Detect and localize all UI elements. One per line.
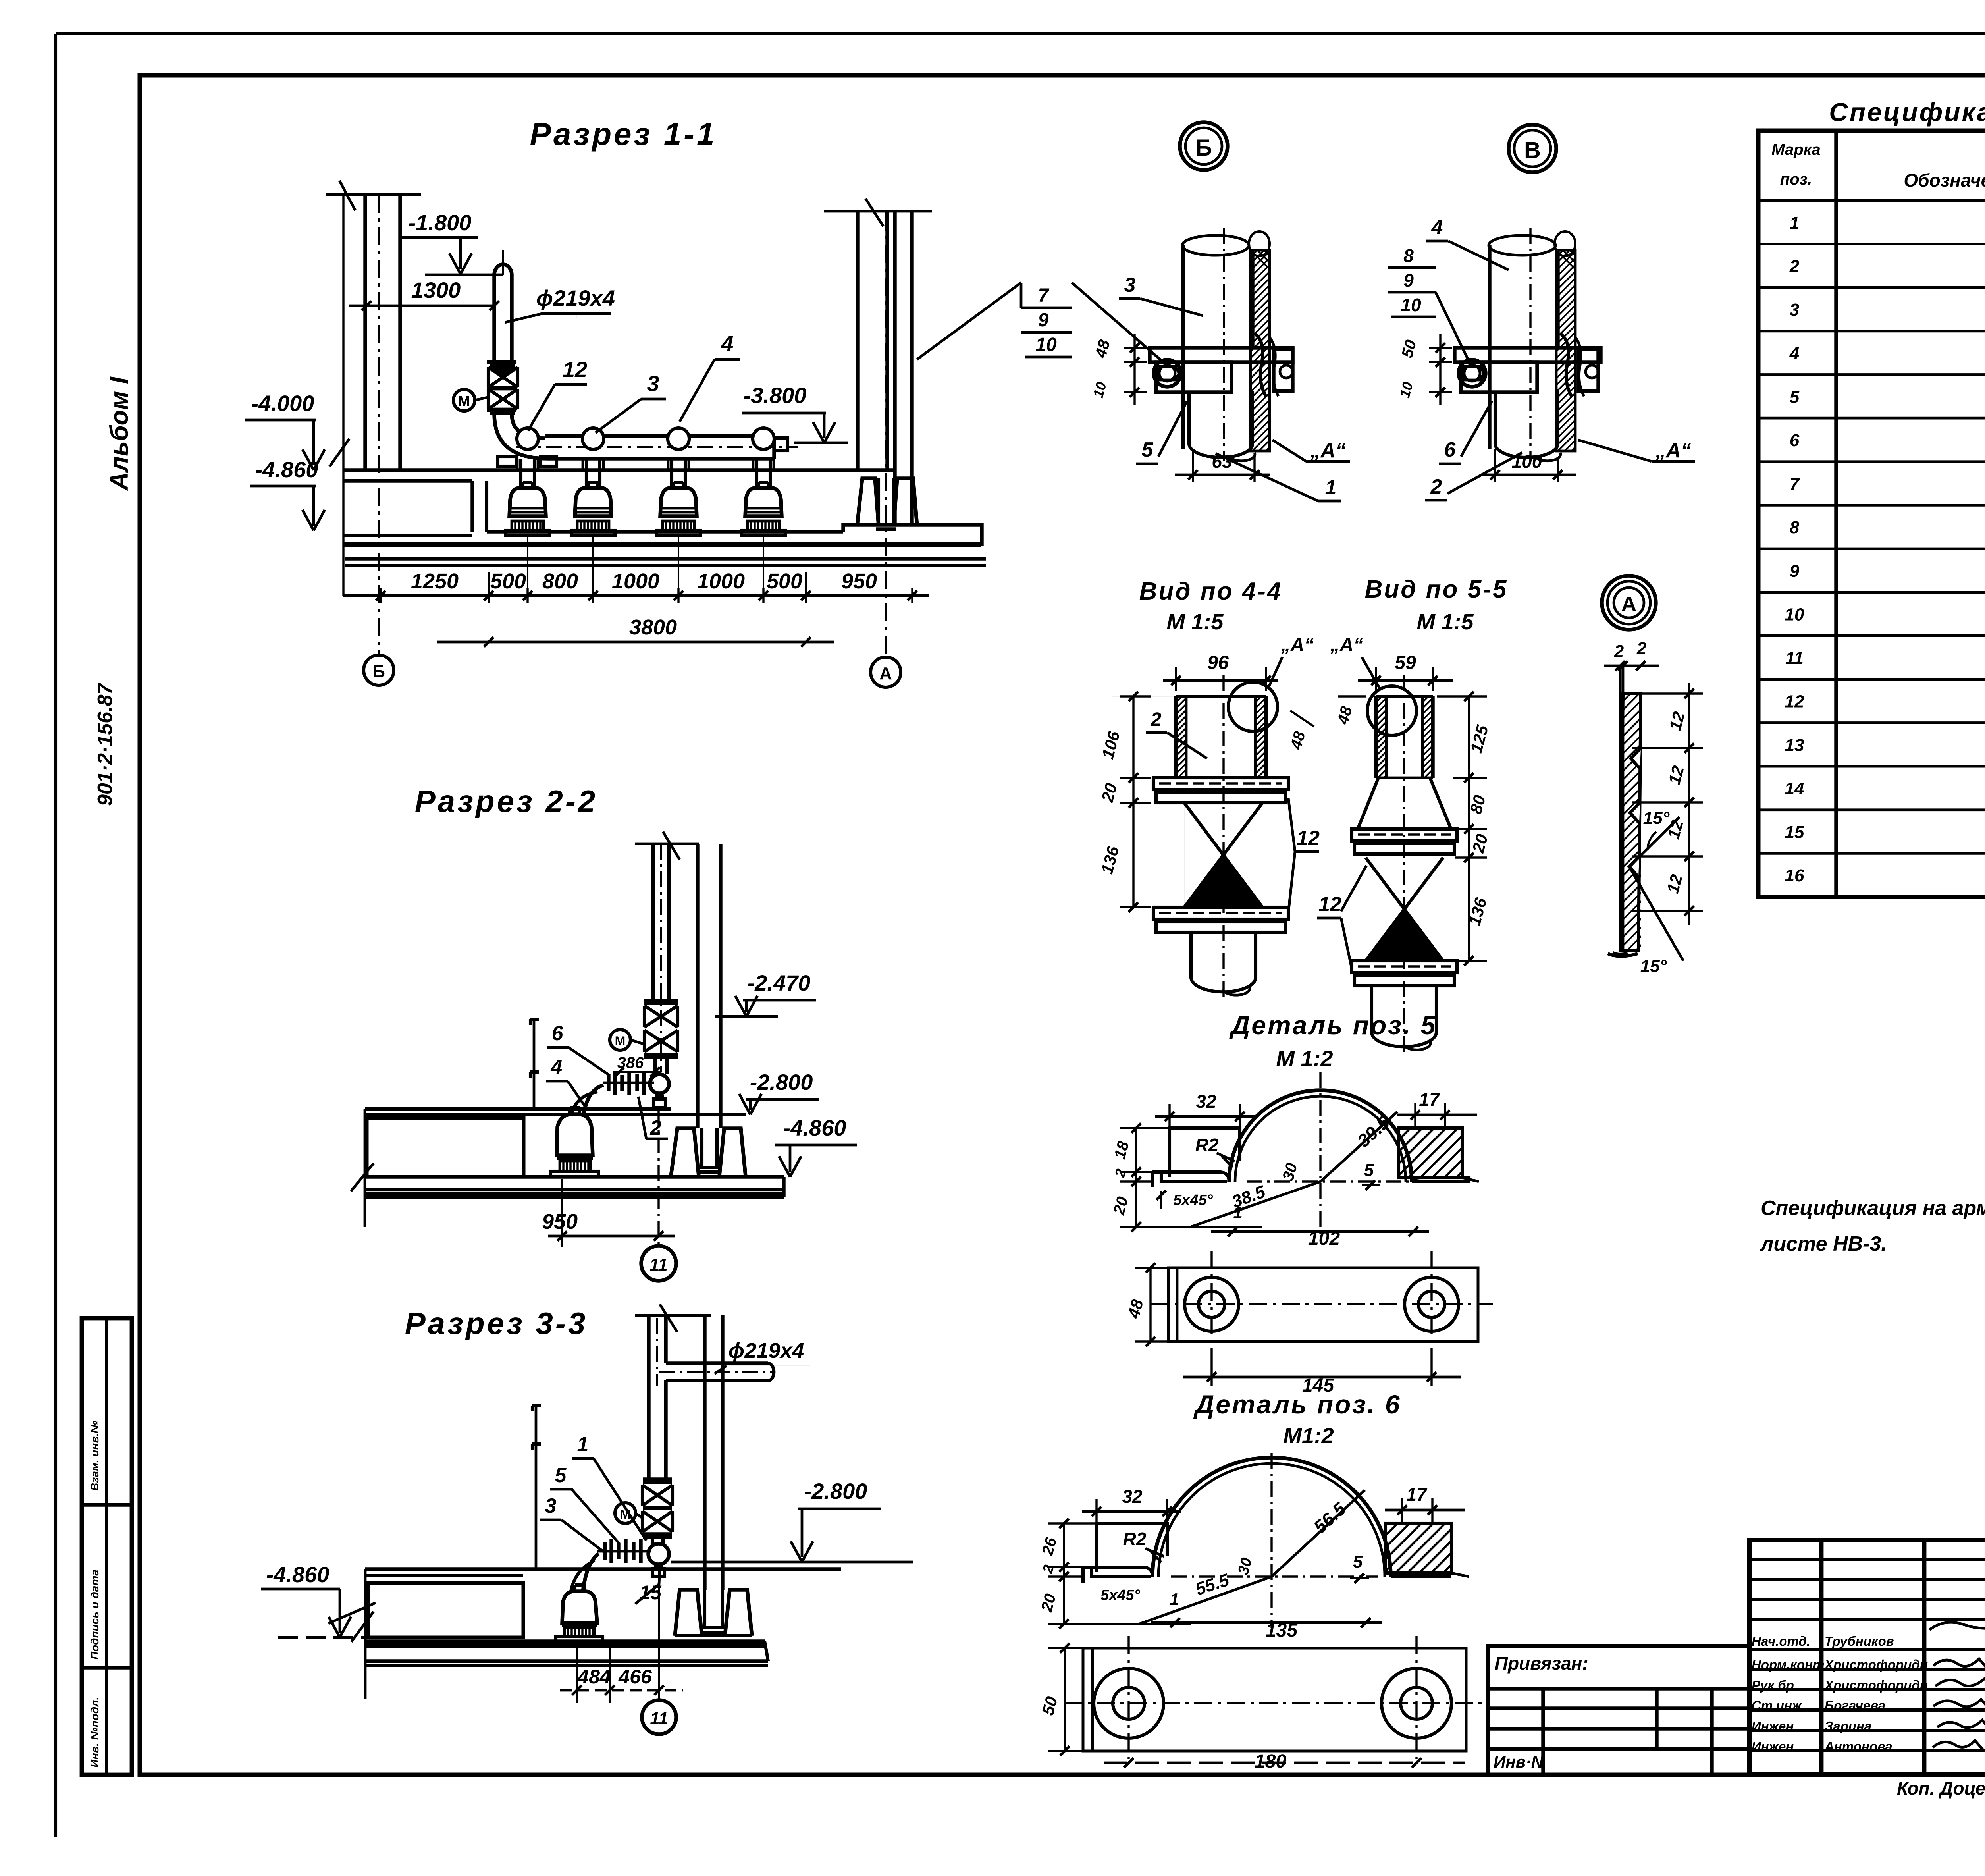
detail B right plate — [1274, 349, 1293, 391]
section 2-2 flexible joint — [603, 1082, 654, 1084]
svg-text:Альбом I: Альбом I — [105, 376, 133, 491]
svg-text:12: 12 — [1297, 827, 1320, 850]
svg-text:1000: 1000 — [697, 569, 745, 593]
svg-text:4: 4 — [551, 1056, 563, 1079]
section 2-2 pedestal 1 — [671, 1128, 699, 1176]
svg-text:ϕ219х4: ϕ219х4 — [728, 1339, 804, 1363]
detail V pipe bottom — [1494, 392, 1497, 444]
svg-text:1: 1 — [1325, 476, 1337, 499]
detail V bolt — [1459, 360, 1486, 387]
detail B circle — [1180, 122, 1228, 170]
svg-text:Взам. инв.№: Взам. инв.№ — [89, 1421, 101, 1491]
dimension row bottom 1-1 — [343, 594, 929, 597]
svg-text:1: 1 — [1170, 1590, 1179, 1608]
svg-text:5: 5 — [1790, 387, 1800, 407]
svg-text:2: 2 — [650, 1116, 662, 1139]
svg-text:12: 12 — [1318, 893, 1341, 916]
detail V rubber seal — [1560, 334, 1572, 397]
svg-text:466: 466 — [618, 1666, 652, 1688]
detail poz5 centerlines — [1319, 1072, 1321, 1235]
svg-text:6: 6 — [1790, 431, 1800, 450]
section 3-3 pipe shoe — [705, 1590, 723, 1628]
svg-text:2: 2 — [1151, 709, 1162, 730]
grid line B — [378, 195, 380, 655]
section 3-3 flexible joint — [597, 1550, 651, 1553]
svg-text:15°: 15° — [1640, 956, 1667, 976]
section 3-3 base — [365, 1639, 765, 1643]
svg-text:11: 11 — [1785, 648, 1804, 668]
section 3-3 valve stack — [643, 1477, 672, 1481]
svg-text:Норм.конт: Норм.конт — [1752, 1657, 1824, 1672]
svg-text:Спецификация на арматуру и: Спецификация на арматуру и оборудование … — [1761, 1197, 1985, 1220]
svg-text:901·2·156.87: 901·2·156.87 — [94, 683, 117, 806]
detail poz6 plate — [1083, 1648, 1466, 1751]
svg-text:-4.860: -4.860 — [266, 1562, 330, 1587]
svg-text:М: М — [615, 1034, 626, 1048]
svg-text:12: 12 — [563, 357, 587, 382]
pump riser 3 — [670, 459, 673, 488]
section 2-2 valve stack — [644, 999, 678, 1002]
section 3-3 pump — [562, 1591, 597, 1623]
svg-text:R2: R2 — [1195, 1135, 1219, 1155]
svg-text:500: 500 — [767, 569, 802, 593]
section 3-3 floor slab — [365, 1567, 841, 1571]
svg-text:5: 5 — [1364, 1161, 1374, 1180]
svg-text:„А“: „А“ — [1281, 634, 1314, 656]
svg-text:4: 4 — [721, 331, 733, 356]
section 2-2 column — [696, 844, 699, 1128]
svg-text:Богачева: Богачева — [1825, 1698, 1885, 1713]
title block frame — [1750, 1540, 1985, 1775]
svg-text:12: 12 — [1785, 692, 1804, 711]
detail B pipe bottom — [1187, 392, 1191, 444]
detail B rubber seal — [1255, 334, 1266, 397]
svg-text:32: 32 — [1196, 1091, 1216, 1112]
svg-text:15: 15 — [1785, 823, 1804, 842]
detail poz5 arch — [1229, 1090, 1412, 1182]
svg-text:63: 63 — [1212, 451, 1232, 472]
svg-text:М 1:2: М 1:2 — [1276, 1046, 1333, 1071]
pump 1 — [509, 488, 546, 516]
svg-text:поз.: поз. — [1780, 171, 1812, 188]
section 1-1 upper slab — [343, 468, 895, 472]
view 5-5 flange pair upper — [1352, 829, 1457, 841]
svg-text:10: 10 — [1035, 334, 1057, 355]
svg-text:Ст.инж.: Ст.инж. — [1752, 1698, 1805, 1713]
pump 2 — [575, 488, 611, 516]
svg-text:R2: R2 — [1123, 1529, 1147, 1549]
svg-text:484: 484 — [577, 1666, 611, 1688]
svg-text:950: 950 — [841, 569, 877, 593]
manifold support — [498, 457, 517, 466]
svg-text:„А“: „А“ — [1310, 439, 1346, 462]
svg-text:Вид по 5-5: Вид по 5-5 — [1365, 576, 1508, 603]
svg-text:96: 96 — [1207, 652, 1229, 673]
section 2-2 hose — [584, 1085, 603, 1114]
section 2-2 pump outlet circle — [650, 1074, 669, 1093]
detail poz5 radius 38.5 — [1191, 1182, 1320, 1227]
section 3-3 pump outlet circle — [648, 1544, 669, 1564]
detail poz5 plate hole 1 — [1185, 1277, 1239, 1331]
svg-text:-3.800: -3.800 — [744, 383, 807, 408]
detail A bottom foot — [1608, 954, 1638, 956]
detail poz6 centerlines — [1270, 1453, 1272, 1628]
svg-text:9: 9 — [1038, 310, 1049, 331]
section 1-1 right pedestal 2 — [894, 478, 917, 526]
detail A strip plates — [1619, 667, 1622, 949]
view 4-4 bowtie with filled triangle — [1184, 803, 1262, 907]
section 3-3 hose — [583, 1554, 599, 1591]
section 2-2 tank opening — [367, 1118, 524, 1177]
svg-text:59: 59 — [1395, 652, 1416, 673]
svg-text:Разрез 3-3: Разрез 3-3 — [405, 1306, 588, 1341]
svg-text:-2.800: -2.800 — [750, 1070, 813, 1095]
svg-text:8: 8 — [1403, 245, 1414, 266]
svg-text:13: 13 — [1785, 735, 1804, 755]
svg-text:Марка: Марка — [1771, 141, 1821, 158]
detail A hatched strip — [1620, 694, 1641, 951]
svg-text:Обозначение: Обозначение — [1904, 170, 1985, 191]
section 3-3 tank opening — [368, 1583, 523, 1637]
dimension 3800 — [437, 641, 834, 644]
manifold end cap — [774, 438, 788, 451]
svg-text:5х45°: 5х45° — [1100, 1587, 1141, 1604]
pump 4 — [745, 488, 782, 516]
section 3-3 column — [703, 1315, 706, 1590]
view 5-5 taper cone — [1358, 778, 1378, 829]
svg-text:6: 6 — [552, 1022, 564, 1045]
section 3-3 branch elbow — [666, 1362, 683, 1365]
view 4-4 circle A mark — [1228, 682, 1278, 731]
section 1-1 left wall — [363, 193, 367, 470]
svg-text:10: 10 — [1401, 295, 1421, 315]
svg-text:100: 100 — [1512, 451, 1542, 472]
detail poz6 left foot — [1092, 1567, 1152, 1577]
detail poz5 radius 39.5 — [1320, 1112, 1397, 1182]
svg-text:3800: 3800 — [629, 615, 677, 639]
detail poz6 radius 56.5 — [1272, 1490, 1365, 1577]
svg-text:-2.800: -2.800 — [804, 1479, 867, 1504]
svg-text:Деталь поз. 6: Деталь поз. 6 — [1193, 1390, 1401, 1419]
detail V clamp top bar — [1455, 348, 1601, 362]
detail poz6 right block hatched — [1386, 1523, 1451, 1573]
svg-text:Трубников: Трубников — [1825, 1634, 1894, 1648]
detail poz6 arch — [1152, 1458, 1391, 1577]
detail poz5 left block — [1170, 1128, 1240, 1177]
svg-text:Христофориди: Христофориди — [1824, 1678, 1928, 1693]
section 2-2 floor and base — [365, 1175, 784, 1178]
svg-text:14: 14 — [1785, 779, 1804, 798]
svg-text:Разрез 2-2: Разрез 2-2 — [415, 784, 597, 819]
detail poz6 left block — [1097, 1523, 1167, 1572]
svg-text:17: 17 — [1419, 1089, 1440, 1110]
section 3-3 pipes from above — [635, 1314, 711, 1317]
detail B bolt — [1154, 360, 1181, 387]
svg-text:500: 500 — [490, 569, 526, 593]
specification table grid — [1758, 131, 1985, 897]
svg-text:Коп. Доценко: Коп. Доценко — [1897, 1778, 1985, 1799]
svg-text:Спецификация на систему К3: Спецификация на систему К3 — [1829, 97, 1985, 127]
section 3-3 cut marker — [535, 1406, 538, 1569]
svg-text:180: 180 — [1255, 1751, 1286, 1772]
section 2-2 pipe shoe — [702, 1128, 717, 1167]
section 2-2 pipes from above — [635, 843, 699, 845]
detail B clamp lower bar — [1156, 362, 1231, 392]
svg-text:2: 2 — [1430, 475, 1442, 498]
svg-text:„А“: „А“ — [1655, 439, 1691, 462]
detail poz6 radius 55.5 — [1139, 1577, 1272, 1624]
svg-text:4: 4 — [1431, 216, 1443, 239]
svg-text:11: 11 — [650, 1709, 668, 1728]
grid line A — [885, 212, 887, 657]
svg-text:2: 2 — [1636, 639, 1647, 658]
view 4-4 left dims — [1132, 696, 1134, 907]
svg-text:950: 950 — [542, 1210, 578, 1234]
svg-text:-4.000: -4.000 — [251, 391, 314, 416]
detail B labels 7 9 10 leader to bolt — [1072, 283, 1163, 362]
svg-text:„А“: „А“ — [1330, 634, 1363, 656]
svg-text:Привязан:: Привязан: — [1495, 1653, 1588, 1674]
detail V right plate — [1578, 349, 1598, 391]
svg-text:8: 8 — [1790, 518, 1800, 537]
svg-text:-4.860: -4.860 — [255, 457, 318, 482]
svg-text:Зарина: Зарина — [1825, 1719, 1871, 1733]
svg-text:Христофориди: Христофориди — [1824, 1657, 1928, 1672]
pump riser 1 — [519, 459, 522, 488]
svg-text:Б: Б — [1195, 135, 1212, 161]
detail B hose hatched — [1251, 250, 1270, 451]
svg-text:7: 7 — [1038, 285, 1050, 306]
svg-text:5х45°: 5х45° — [1173, 1192, 1213, 1209]
svg-text:3: 3 — [545, 1494, 557, 1517]
svg-text:9: 9 — [1790, 561, 1800, 581]
detail poz6 plate hole 2 — [1382, 1668, 1451, 1738]
svg-text:М 1:5: М 1:5 — [1166, 609, 1224, 634]
svg-text:М1:2: М1:2 — [1283, 1423, 1334, 1448]
svg-text:1250: 1250 — [411, 569, 459, 593]
svg-text:1: 1 — [1233, 1203, 1242, 1222]
view 5-5 hose top — [1374, 696, 1378, 778]
svg-text:А: А — [1621, 592, 1637, 616]
svg-text:М 1:5: М 1:5 — [1416, 609, 1474, 634]
svg-text:1: 1 — [577, 1433, 589, 1456]
detail poz5 left foot — [1161, 1172, 1229, 1182]
view 5-5 circle A mark — [1367, 686, 1416, 735]
svg-text:32: 32 — [1122, 1486, 1143, 1507]
svg-text:7: 7 — [1790, 474, 1800, 494]
section 2-2 M circle — [610, 1030, 630, 1050]
svg-text:А: А — [879, 664, 892, 683]
svg-text:Инжен.: Инжен. — [1752, 1719, 1797, 1733]
section 1-1 pipe shoe — [879, 478, 894, 525]
detail V pipe — [1488, 245, 1491, 449]
position circle 11 (3-3) — [642, 1700, 676, 1734]
svg-text:Антонова: Антонова — [1824, 1739, 1892, 1754]
left margin stamp column — [82, 1318, 132, 1775]
svg-text:6: 6 — [1444, 438, 1456, 461]
detail poz5 plate — [1168, 1268, 1478, 1342]
detail B pipe — [1181, 245, 1185, 449]
section 2-2 pedestal 2 — [719, 1128, 746, 1176]
view 4-4 flange top pair — [1153, 778, 1288, 790]
svg-text:5: 5 — [555, 1464, 567, 1487]
svg-text:800: 800 — [542, 569, 578, 593]
detail V circle — [1509, 125, 1556, 172]
view 5-5 pipe stub — [1370, 987, 1373, 1032]
svg-text:16: 16 — [1785, 866, 1804, 885]
view 4-4 pipe stub — [1189, 932, 1193, 978]
pump 3 — [660, 488, 697, 516]
pump riser 4 — [755, 459, 758, 488]
svg-text:ϕ219х4: ϕ219х4 — [536, 285, 615, 310]
outer border frame — [56, 32, 1985, 35]
svg-text:Деталь поз. 5: Деталь поз. 5 — [1229, 1010, 1437, 1040]
svg-text:3: 3 — [1124, 274, 1136, 297]
svg-text:Нач.отд.: Нач.отд. — [1752, 1634, 1810, 1648]
standpipe flanges — [487, 360, 516, 364]
svg-text:-1.800: -1.800 — [409, 210, 472, 235]
detail A circle — [1602, 576, 1656, 630]
detail poz6 plate hole 1 — [1094, 1668, 1164, 1738]
view 5-5 right dims — [1468, 696, 1470, 961]
detail V hose hatched — [1556, 250, 1575, 451]
svg-text:1000: 1000 — [612, 569, 659, 593]
svg-text:Инжен.: Инжен. — [1752, 1739, 1797, 1754]
svg-text:М: М — [458, 393, 470, 409]
section 1-1 right wall and column — [856, 211, 859, 472]
pump riser 2 — [585, 459, 588, 488]
svg-text:5: 5 — [1142, 438, 1154, 461]
svg-text:9: 9 — [1403, 270, 1414, 291]
svg-text:3: 3 — [1790, 300, 1799, 320]
discharge manifold — [545, 434, 774, 438]
section 1-1 foundation base — [343, 542, 981, 547]
svg-text:2: 2 — [1789, 256, 1800, 276]
svg-text:Рук.бр.: Рук.бр. — [1752, 1678, 1798, 1693]
detail poz5 left dims 18 2 20 — [1135, 1128, 1137, 1227]
detail A joggles — [1631, 748, 1641, 769]
detail B clamp top bar — [1150, 348, 1293, 362]
svg-text:10: 10 — [1785, 605, 1804, 624]
svg-text:-4.860: -4.860 — [783, 1115, 846, 1140]
svg-text:1300: 1300 — [411, 278, 461, 303]
svg-text:Б: Б — [372, 662, 385, 681]
M motor circle — [453, 389, 475, 411]
detail poz5 right block hatched — [1399, 1128, 1462, 1178]
svg-text:5: 5 — [1353, 1552, 1363, 1571]
view 4-4 hose top — [1174, 696, 1178, 778]
section 1-1 right pedestal 1 — [857, 478, 879, 526]
view 5-5 flange pair lower — [1352, 961, 1457, 973]
privyazan table — [1488, 1646, 1750, 1775]
detail A right dim ladder — [1688, 683, 1690, 925]
detail poz5 dim 48 plate — [1149, 1268, 1151, 1342]
detail poz6 dim 50 plate — [1064, 1648, 1066, 1751]
section 2-2 cut line marker — [533, 1019, 536, 1108]
detail poz5 plate hole 2 — [1405, 1277, 1459, 1331]
section 1-1 standpipe — [492, 275, 496, 362]
section 3-3 pedestal 1 — [675, 1590, 702, 1636]
signatures — [1929, 1620, 1985, 1630]
position circle 11 (2-2) — [641, 1246, 676, 1281]
svg-text:Инв·N: Инв·N — [1494, 1753, 1544, 1771]
svg-text:3: 3 — [647, 371, 659, 396]
view 4-4 flange bottom pair — [1153, 907, 1288, 919]
section 3-3 M circle — [615, 1503, 636, 1523]
section 2-2 ceiling slab — [365, 1107, 671, 1111]
svg-text:2: 2 — [1614, 642, 1624, 661]
standpipe valve 2 — [487, 386, 516, 391]
svg-text:4: 4 — [1789, 344, 1799, 363]
svg-text:15°: 15° — [1643, 808, 1670, 828]
svg-text:листе НВ-3.: листе НВ-3. — [1760, 1232, 1887, 1255]
svg-text:Подпись и дата: Подпись и дата — [89, 1569, 101, 1660]
svg-text:1: 1 — [1790, 213, 1799, 233]
svg-text:17: 17 — [1406, 1484, 1428, 1505]
detail poz6 left dims 26 2 20 — [1063, 1523, 1065, 1624]
standpipe elbow — [494, 414, 548, 459]
section 2-2 pump — [557, 1114, 593, 1155]
svg-text:Инв. №подл.: Инв. №подл. — [89, 1697, 101, 1768]
detail V clamp lower bar — [1461, 362, 1537, 392]
section 3-3 pedestal 2 — [725, 1590, 752, 1636]
svg-text:В: В — [1524, 137, 1541, 163]
view 5-5 bowtie with filled triangle — [1366, 858, 1443, 961]
svg-text:11: 11 — [649, 1255, 668, 1274]
svg-text:Вид по 4-4: Вид по 4-4 — [1139, 578, 1283, 605]
standpipe valve 1 — [488, 367, 518, 387]
svg-text:Разрез 1-1: Разрез 1-1 — [530, 116, 717, 152]
svg-text:-2.470: -2.470 — [748, 970, 811, 995]
